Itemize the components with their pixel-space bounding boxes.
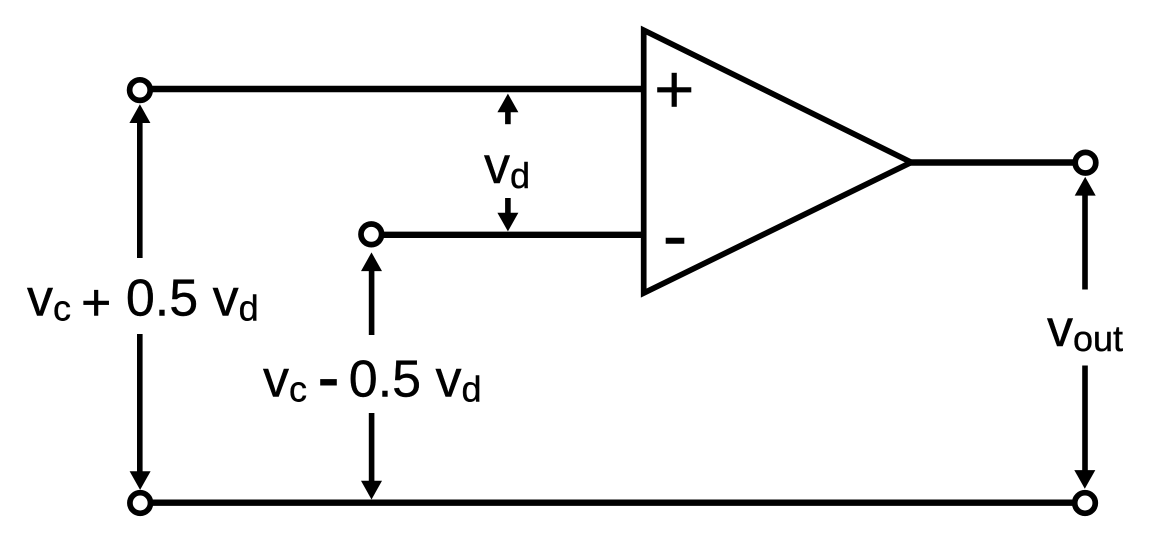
wire top input to op-amp + [149, 86, 644, 92]
op-amp + input label [657, 73, 691, 107]
arrow vd lower (short shaft + down arrowhead) [497, 198, 518, 231]
terminal circle bottom-right [1075, 493, 1096, 514]
wire bottom rail [148, 500, 1078, 506]
op-amp U1 [644, 30, 912, 293]
arrow vc+0.5vd lower (shaft + down arrowhead) [130, 334, 151, 490]
terminal circle bottom-left [130, 493, 151, 514]
arrow vc+0.5vd upper (up arrowhead + shaft) [129, 104, 150, 258]
terminal circle lower-left input [361, 224, 382, 245]
arrow vout upper (up arrowhead + shaft) [1075, 177, 1096, 290]
terminal circle top-left input [130, 80, 151, 101]
terminal circle output [1075, 152, 1096, 173]
arrow vc-0.5vd lower (shaft + down arrowhead) [361, 413, 382, 500]
arrow vd upper (up arrowhead + short shaft) [497, 94, 518, 125]
wire lower input to op-amp - [381, 232, 644, 238]
arrow vc-0.5vd upper (up arrowhead + shaft) [361, 252, 382, 335]
wire op-amp output [908, 159, 1078, 165]
arrow vout lower (shaft + down arrowhead) [1074, 366, 1095, 489]
op-amp - input label [666, 238, 685, 244]
